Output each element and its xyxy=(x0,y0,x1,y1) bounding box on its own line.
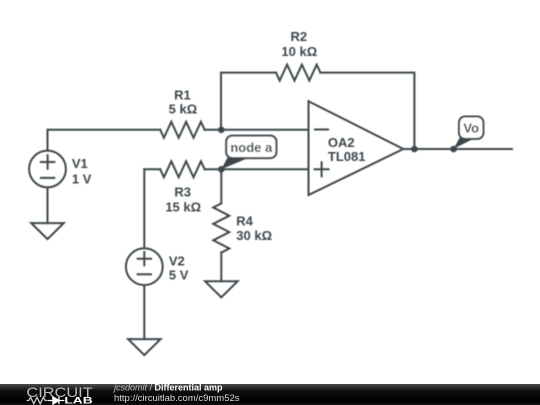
svg-text:R2: R2 xyxy=(290,29,307,44)
svg-text:1 V: 1 V xyxy=(72,171,92,186)
svg-text:jcsdomit / Differential amp: jcsdomit / Differential amp xyxy=(113,383,223,393)
svg-text:TL081: TL081 xyxy=(328,149,366,164)
ground (V2) xyxy=(128,339,161,355)
Vo flag pointer xyxy=(454,138,474,149)
voltage source V1 xyxy=(29,151,66,188)
wire: R3 to op-amp non-inverting input xyxy=(205,168,309,170)
svg-text:V2: V2 xyxy=(169,253,185,268)
svg-text:OA2: OA2 xyxy=(328,135,355,150)
wire: R4 bottom to ground xyxy=(220,253,222,282)
wire: V1 top to R1 xyxy=(48,129,161,131)
svg-text:R3: R3 xyxy=(174,184,191,199)
wire: V1 stem top xyxy=(47,130,49,150)
svg-text:5 V: 5 V xyxy=(169,268,189,283)
wire: R1 to op-amp inverting input xyxy=(205,129,309,131)
svg-text:Vo: Vo xyxy=(463,120,479,135)
svg-text:R4: R4 xyxy=(236,214,253,229)
V1 plus sign xyxy=(41,155,54,168)
svg-text:10 kΩ: 10 kΩ xyxy=(281,44,317,59)
svg-text:15 kΩ: 15 kΩ xyxy=(165,200,201,215)
V2 plus sign xyxy=(138,252,151,265)
V2 minus sign xyxy=(138,273,151,275)
ground (R4) xyxy=(205,281,238,297)
op-amp plus symbol xyxy=(315,162,329,176)
svg-text:http://circuitlab.com/c9mm52s: http://circuitlab.com/c9mm52s xyxy=(114,393,240,403)
CircuitLab logo: resistor zigzag xyxy=(27,397,48,404)
resistor R4 (vertical) xyxy=(213,203,229,252)
CircuitLab logo: diode xyxy=(48,397,65,404)
node: Vo flag dot xyxy=(450,146,457,153)
svg-text:30 kΩ: 30 kΩ xyxy=(236,228,272,243)
op-amp OA2 triangle xyxy=(309,101,404,195)
svg-text:5 kΩ: 5 kΩ xyxy=(169,101,198,116)
node: output feedback dot xyxy=(411,146,418,153)
wire: op-amp output xyxy=(403,148,512,150)
wire: node a down to R4 xyxy=(220,169,222,203)
voltage source V2 xyxy=(126,248,163,285)
Vo flag box xyxy=(459,117,483,139)
svg-text:R1: R1 xyxy=(174,87,191,102)
node a junction dot xyxy=(218,166,225,173)
resistor R2 xyxy=(276,65,320,81)
svg-text:LAB: LAB xyxy=(64,396,92,405)
wire: R3 left horizontal xyxy=(144,168,160,170)
resistor R3 xyxy=(160,161,204,177)
svg-text:node a: node a xyxy=(230,140,273,155)
svg-text:V1: V1 xyxy=(72,156,88,171)
wire: feedback loop left vertical xyxy=(221,73,276,130)
wire: V1 bottom to ground xyxy=(47,188,49,223)
V1 minus sign xyxy=(41,177,54,179)
resistor R1 xyxy=(160,122,204,138)
wire: R3 left vertical to V2 xyxy=(143,169,145,247)
op-amp minus symbol xyxy=(315,129,328,131)
wire: V2 bottom to ground xyxy=(143,286,145,339)
wire: R2 right to feedback down xyxy=(320,73,414,149)
node a flag pointer xyxy=(221,158,247,170)
node a flag box xyxy=(226,136,276,159)
ground (V1) xyxy=(31,223,64,239)
node: junction dot R1/R2 xyxy=(218,127,225,134)
